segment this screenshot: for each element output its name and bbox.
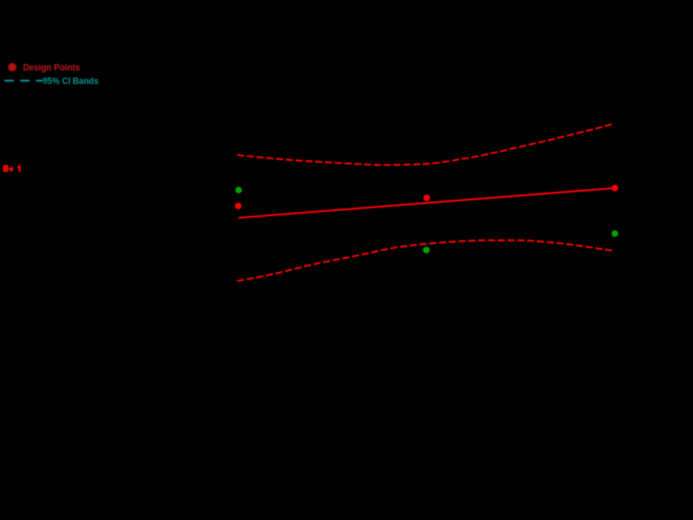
design point green 2 <box>423 247 430 254</box>
legend design-point marker <box>8 63 16 71</box>
center prediction line <box>239 188 614 218</box>
axis label fragment 1 <box>17 165 21 172</box>
design point green 1 <box>235 187 242 194</box>
axis label fragment E <box>3 165 9 172</box>
design point red 3 <box>612 185 619 192</box>
svg-text:Design Points: Design Points <box>23 62 80 73</box>
upper CI band curve <box>237 124 613 165</box>
design point red 2 <box>424 195 431 202</box>
design point green 3 <box>612 230 619 237</box>
axis label fragment plus <box>9 166 14 172</box>
legend CI dash sample <box>5 80 43 82</box>
design point red 1 <box>235 203 242 210</box>
lower CI band curve <box>237 240 614 281</box>
svg-text:95% CI Bands: 95% CI Bands <box>43 76 99 87</box>
